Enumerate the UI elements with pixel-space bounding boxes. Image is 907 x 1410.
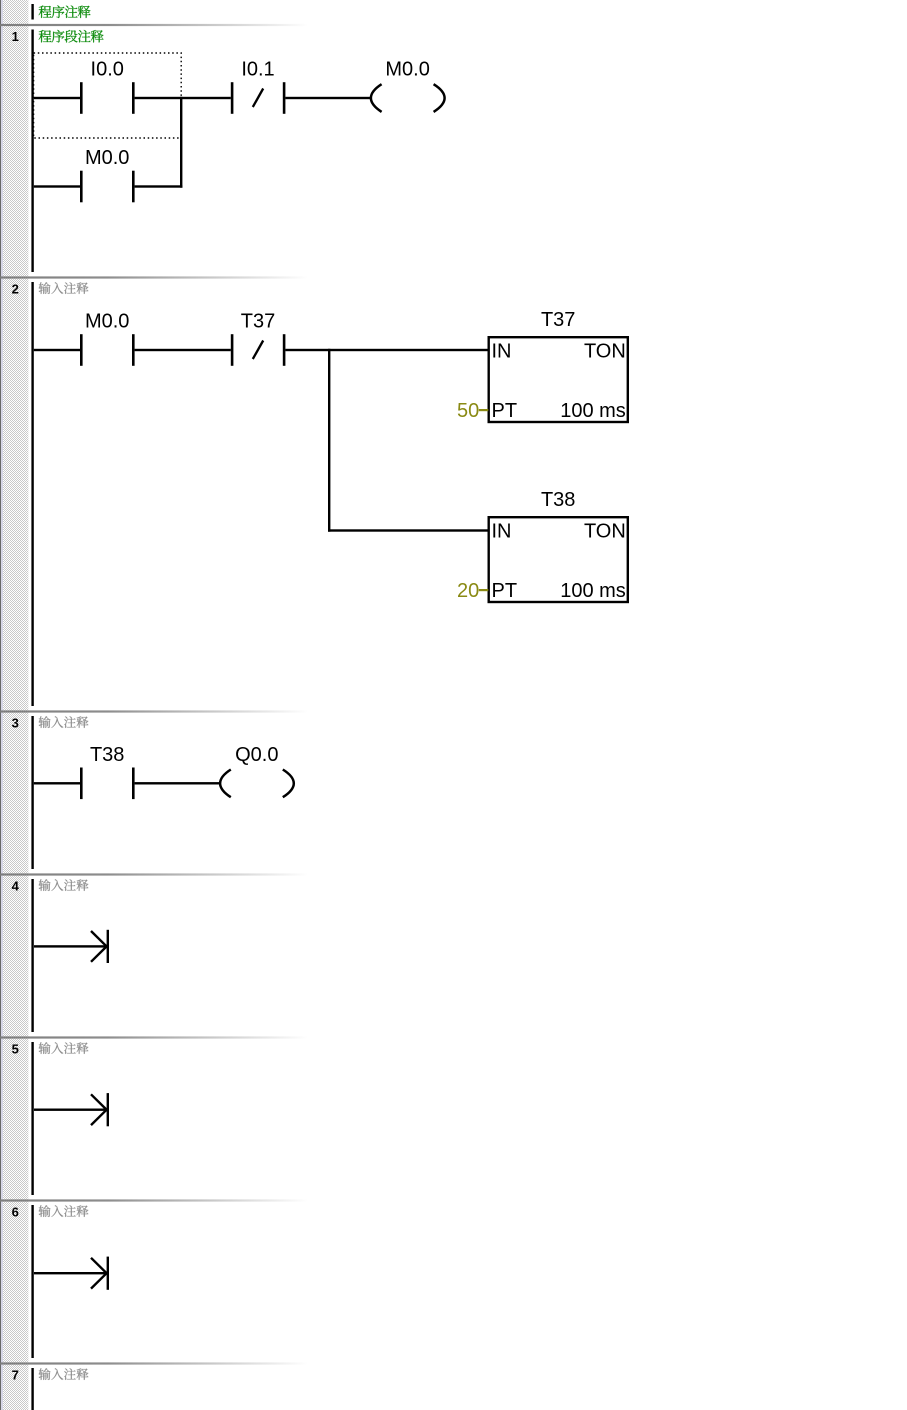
svg-text:100 ms: 100 ms [560,580,626,602]
PT preset value 20 [457,580,488,602]
svg-text:I0.1: I0.1 [241,59,274,81]
wire I0.1 to coil M0.0 [285,97,371,99]
contact T38 [80,744,135,799]
svg-text:M0.0: M0.0 [85,147,129,169]
svg-text:7: 7 [12,1368,19,1383]
PT preset value 50 [457,400,488,422]
left power rail network 3 [31,716,33,869]
branch vertical to T38 [328,349,330,532]
network 7 comment 输入注释 [39,1368,89,1380]
selection dotted rectangle around I0.0 cell [34,53,182,138]
network separator 2 [0,276,308,278]
network 5: empty-network cursor arrow [34,1093,109,1126]
wire rail to T38 contact [34,782,80,784]
coil Q0.0 [220,744,294,797]
svg-text:PT: PT [492,400,518,422]
svg-text:T37: T37 [541,309,575,331]
wire rail to M0.0 contact (branch row) [34,185,80,187]
wire branch to T38 IN pin [328,529,489,531]
left window border [0,0,1,1410]
svg-text:100 ms: 100 ms [560,400,626,422]
svg-text:6: 6 [12,1205,19,1220]
coil M0.0 [371,59,445,112]
network 4: empty-network cursor arrow [34,930,109,963]
wire M0.0 contact to branch join [135,185,183,187]
network 2 comment 输入注释 [39,282,89,294]
network separator 7 [0,1362,308,1364]
svg-text:20: 20 [457,580,479,602]
left power rail network 5 [31,1042,33,1195]
svg-text:3: 3 [12,716,19,731]
svg-text:TON: TON [584,521,626,543]
svg-text:M0.0: M0.0 [85,311,129,333]
svg-text:IN: IN [492,521,512,543]
svg-text:Q0.0: Q0.0 [235,744,278,766]
svg-text:1: 1 [12,29,19,44]
svg-text:T38: T38 [541,489,575,511]
left power rail network 4 [31,879,33,1032]
network 1 comment 程序段注释 [39,30,104,43]
contact T37 (NC) [231,311,286,366]
contact M0.0 [80,311,135,366]
network 3 comment 输入注释 [39,716,89,728]
svg-text:IN: IN [492,341,512,363]
left power rail network 6 [31,1205,33,1358]
branch vertical wire [180,97,182,188]
timer T38 box [489,489,628,602]
timer T37 box [489,309,628,422]
network separator 4 [0,873,308,875]
wire T38 to coil Q0.0 [135,782,221,784]
network 6 comment 输入注释 [39,1205,89,1217]
wire rail to I0.0 [34,97,80,99]
wire rail to M0.0 (net2) [34,349,80,351]
svg-text:2: 2 [12,282,19,297]
svg-text:M0.0: M0.0 [385,59,429,81]
network separator 1 [0,24,308,26]
program comment marker bar [31,4,33,20]
contact I0.1 (NC) [231,59,286,114]
left power rail network 7 [31,1368,33,1410]
svg-text:50: 50 [457,400,479,422]
contact I0.0 [80,59,135,114]
left power rail network 2 [31,282,33,706]
left power rail network 1 [31,30,33,273]
svg-text:TON: TON [584,341,626,363]
program comment 程序注释 [39,5,91,18]
wire I0.0 to I0.1 [135,97,231,99]
wire M0.0 to T37 NC [135,349,231,351]
wire T37 NC to T37 IN pin [285,349,488,351]
svg-text:5: 5 [12,1042,19,1057]
network 6: empty-network cursor arrow [34,1257,109,1290]
gutter dithered column [3,0,28,1410]
svg-text:T38: T38 [90,744,124,766]
svg-text:I0.0: I0.0 [91,59,124,81]
network 5 comment 输入注释 [39,1042,89,1054]
contact M0.0 [80,147,135,202]
svg-text:4: 4 [12,879,20,894]
network separator 5 [0,1036,308,1038]
svg-text:T37: T37 [241,311,275,333]
svg-text:PT: PT [492,580,518,602]
network 4 comment 输入注释 [39,879,89,891]
network separator 6 [0,1199,308,1201]
network separator 3 [0,710,308,712]
